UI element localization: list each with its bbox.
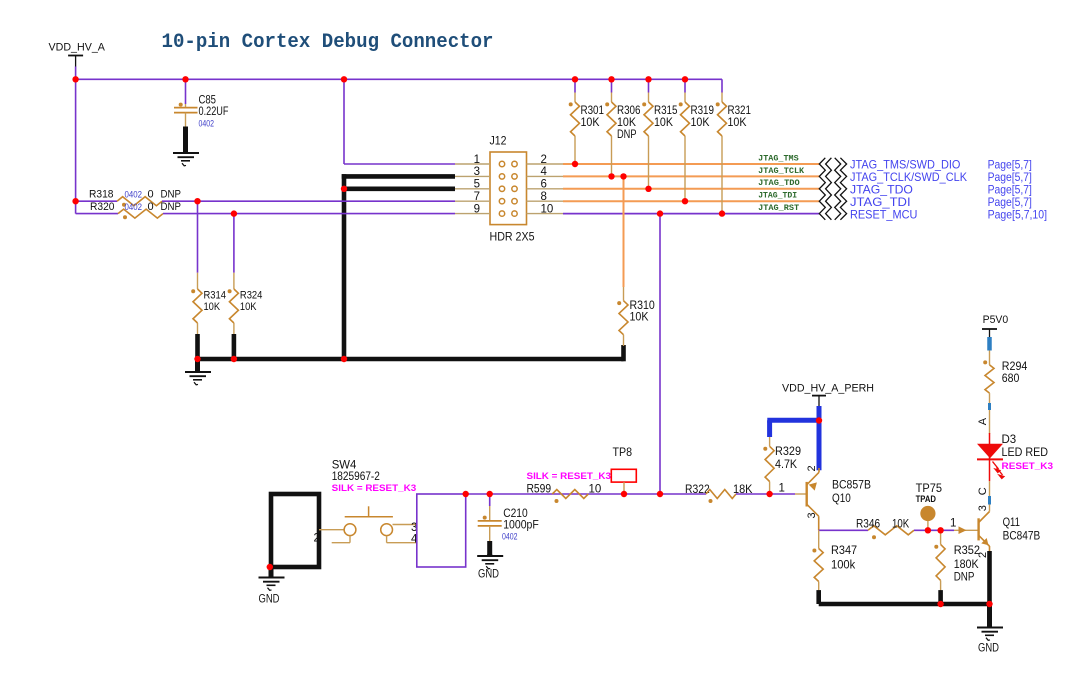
resistor R346 10K (868, 526, 914, 540)
wire ground bus (198, 345, 624, 361)
svg-text:1825967-2: 1825967-2 (332, 471, 380, 483)
wire R318 row right (162, 200, 455, 202)
svg-text:3: 3 (977, 505, 989, 511)
wire C85 branch (185, 79, 187, 104)
svg-text:R322: R322 (685, 484, 710, 496)
ground for C210 (477, 554, 503, 569)
svg-text:10K: 10K (892, 519, 909, 531)
svg-text:1000pF: 1000pF (503, 519, 539, 531)
label R315 10K (654, 105, 678, 129)
label R301 10K (581, 105, 605, 129)
connector J12 HDR 2X5 (490, 152, 527, 225)
svg-text:680: 680 (1002, 373, 1020, 385)
wire VDD_HV_A stub (75, 67, 77, 80)
wire JTAG_TDO row (563, 188, 819, 190)
label R314 10K (204, 290, 227, 313)
wire R329 to VDD_HV_A_PERH blue (767, 420, 819, 437)
svg-text:10K: 10K (240, 301, 257, 313)
svg-text:10K: 10K (630, 311, 649, 323)
svg-text:R347: R347 (831, 545, 857, 557)
svg-text:R321: R321 (728, 105, 752, 117)
label C210 1000pF 0402 (502, 508, 539, 542)
svg-text:JTAG_RST: JTAG_RST (758, 204, 799, 213)
resistor R306 10K DNP (605, 93, 616, 177)
J12 pin numbers 2 4 6 8 10 (541, 154, 554, 216)
wire SW4 gnd loop (271, 494, 319, 567)
ground for bus (185, 359, 211, 385)
wire JTAG_TMS row (563, 163, 819, 165)
ground for bus2 (977, 604, 1003, 641)
svg-text:0.22UF: 0.22UF (199, 106, 229, 118)
transistor Q10 BC857B (807, 468, 819, 530)
wire R346 to Q11 base (914, 529, 954, 531)
resistor R352 180K DNP (934, 544, 945, 591)
switch SW4 (319, 506, 417, 542)
svg-text:10K: 10K (204, 301, 221, 313)
svg-text:2: 2 (806, 465, 818, 471)
label R346 10K (856, 519, 909, 531)
net labels JTAG_TMS JTAG_TCLK JTAG_TDO JTAG_TDI JTAG_RST (758, 154, 804, 213)
svg-text:10-pin Cortex Debug Connector: 10-pin Cortex Debug Connector (162, 31, 494, 54)
wire R318 to R314 (197, 201, 199, 273)
svg-text:SW4: SW4 (332, 459, 357, 471)
svg-text:R306: R306 (617, 105, 641, 117)
value label C85 0.22UF 0402 (199, 94, 229, 128)
power symbol VDD_HV_A_PERH (782, 383, 874, 407)
label R320 0402 0 DNP (90, 201, 181, 213)
wire rail to R315 (648, 79, 650, 92)
off-page connector chevrons (819, 158, 846, 220)
svg-text:RESET_MCU: RESET_MCU (850, 207, 917, 221)
svg-text:R294: R294 (1002, 361, 1028, 373)
svg-text:JTAG_TDI: JTAG_TDI (758, 192, 797, 201)
wire rail to R319 (684, 79, 686, 92)
svg-text:10K: 10K (654, 117, 673, 129)
svg-text:C210: C210 (503, 508, 528, 520)
svg-text:R352: R352 (954, 545, 980, 557)
svg-text:100k: 100k (831, 559, 855, 571)
wire reset to C210 (489, 494, 491, 506)
svg-text:1: 1 (474, 154, 480, 166)
wire rail to R301 (574, 79, 576, 92)
power symbol P5V0 (982, 314, 1008, 340)
resistor R314 10K (191, 273, 202, 335)
svg-text:R301: R301 (581, 105, 605, 117)
svg-text:R320: R320 (90, 201, 115, 213)
wire R314 to gnd bus (195, 334, 200, 359)
wire top VDD rail (76, 78, 722, 80)
label Q11 BC847B (1003, 517, 1041, 543)
svg-text:LED RED: LED RED (1002, 447, 1049, 459)
wire reset line (466, 493, 706, 495)
wire R320 row right (163, 213, 455, 215)
svg-text:SILK = RESET_K3: SILK = RESET_K3 (527, 471, 612, 482)
capacitor C210 1000pF (478, 506, 502, 542)
wire R294 blue segment (988, 403, 991, 410)
resistor R347 100k (812, 549, 823, 592)
svg-text:10K: 10K (581, 117, 600, 129)
J12 right pin stubs (527, 164, 564, 214)
wire JTAG_TDI row (563, 200, 819, 202)
svg-text:5: 5 (474, 179, 480, 191)
wire Q10 collector to R346 (819, 529, 868, 531)
wire node to R352 (940, 530, 942, 544)
svg-text:0402: 0402 (125, 190, 143, 200)
wire rail to R306 (611, 79, 613, 92)
J12 left pin stubs (455, 164, 490, 214)
resistor R599 10 (552, 490, 588, 504)
testpoint TP8 (611, 469, 636, 494)
label R294 680 (1002, 361, 1028, 385)
label R347 100k (831, 545, 857, 571)
resistor R329 4.7K (763, 436, 774, 481)
resistor R294 680 (983, 360, 994, 403)
base arrow Q11 (959, 526, 967, 534)
svg-text:VDD_HV_A: VDD_HV_A (49, 42, 106, 54)
label BC857B Q10 (832, 479, 871, 505)
svg-text:R310: R310 (630, 300, 655, 312)
J12 pin numbers 1 3 5 7 9 (474, 154, 480, 216)
svg-text:Page[5,7,10]: Page[5,7,10] (988, 207, 1047, 221)
wire D3 cathode to Q11 collector (989, 481, 991, 511)
svg-text:Q11: Q11 (1003, 517, 1020, 529)
svg-text:SILK = RESET_K3: SILK = RESET_K3 (332, 483, 417, 494)
wire R352 to gnd bus2 (938, 590, 943, 604)
wire R294 to D3 anode (989, 410, 991, 434)
wire R322 to Q10 base (736, 493, 795, 495)
svg-text:GND: GND (478, 569, 499, 581)
label R321 10K (728, 105, 752, 129)
wire ground bus2 (819, 602, 990, 607)
wire R324 to gnd bus (232, 334, 237, 359)
wire R320 to R324 (233, 214, 235, 273)
svg-text:10K: 10K (728, 117, 747, 129)
ground for C85 (173, 151, 199, 166)
svg-text:DNP: DNP (617, 129, 637, 141)
svg-text:6: 6 (541, 179, 547, 191)
label R324 10K (240, 290, 263, 313)
svg-text:R324: R324 (240, 290, 263, 302)
svg-text:DNP: DNP (954, 571, 975, 583)
label R318 0402 0 DNP (89, 189, 181, 201)
resistor R321 10K (716, 93, 727, 214)
svg-text:JTAG_TDO: JTAG_TDO (758, 179, 800, 188)
svg-text:TP8: TP8 (613, 447, 633, 459)
svg-text:R346: R346 (856, 519, 880, 531)
svg-text:TPAD: TPAD (916, 494, 937, 504)
wire JTAG_RST row (563, 213, 819, 215)
led D3 LED RED (977, 433, 1004, 481)
wire Q11 emitter to gnd bus2 (987, 551, 992, 604)
svg-text:RESET_K3: RESET_K3 (1002, 461, 1054, 472)
wire C210 to gnd (487, 541, 492, 556)
label SW4 1825967-2 SILK = RESET_K3 (332, 459, 417, 494)
label TP75 TPAD (916, 483, 942, 504)
svg-text:1: 1 (779, 483, 785, 495)
svg-text:R599: R599 (527, 483, 552, 495)
wire node to R329 (769, 482, 771, 495)
svg-text:0: 0 (148, 201, 154, 213)
label R322 18K (685, 484, 753, 496)
svg-text:BC857B: BC857B (832, 479, 871, 491)
svg-text:GND: GND (978, 643, 999, 655)
testpoint TP75 (920, 506, 935, 530)
svg-text:R329: R329 (775, 446, 801, 458)
wire SW4 output loop (417, 494, 466, 567)
svg-text:HDR 2X5: HDR 2X5 (490, 230, 535, 244)
resistor R318 (117, 197, 162, 207)
svg-text:0: 0 (148, 189, 154, 201)
svg-text:3: 3 (474, 166, 480, 178)
wire D3 cathode blue segment (988, 496, 991, 505)
svg-text:3: 3 (806, 512, 818, 518)
svg-text:P5V0: P5V0 (983, 314, 1009, 326)
svg-text:7: 7 (474, 191, 480, 203)
svg-text:R315: R315 (654, 105, 678, 117)
svg-text:R314: R314 (204, 290, 227, 302)
resistor R315 10K (642, 93, 653, 189)
svg-text:VDD_HV_A_PERH: VDD_HV_A_PERH (782, 383, 874, 395)
resistor R319 10K (679, 93, 690, 202)
resistor R301 10K (569, 93, 580, 165)
svg-text:J12: J12 (490, 134, 507, 148)
label R319 10K (691, 105, 715, 129)
label D3 LED RED RESET_K3 (1002, 434, 1054, 472)
svg-text:C85: C85 (199, 94, 217, 106)
svg-text:R319: R319 (691, 105, 715, 117)
svg-text:D3: D3 (1002, 434, 1017, 446)
wire gnd to pin3 (342, 174, 455, 179)
resistor R310 10K (617, 287, 628, 346)
svg-text:DNP: DNP (161, 189, 182, 201)
svg-text:180K: 180K (954, 559, 979, 571)
svg-text:10: 10 (589, 483, 602, 495)
svg-text:10K: 10K (617, 117, 636, 129)
label R352 180K DNP (954, 545, 980, 583)
wire gnd vertical bus drop (342, 174, 347, 359)
svg-text:Q10: Q10 (832, 493, 851, 505)
wire left VDD vertical (75, 79, 77, 213)
power symbol VDD_HV_A (49, 42, 106, 67)
svg-text:DNP: DNP (161, 201, 182, 213)
wire Q10 collector to R347 (818, 530, 820, 548)
label R310 10K (630, 300, 655, 324)
svg-text:4.7K: 4.7K (775, 459, 797, 471)
wire R320 row left (76, 213, 118, 215)
svg-text:10: 10 (541, 203, 554, 215)
label R306 10K DNP (617, 105, 641, 141)
svg-text:9: 9 (474, 203, 480, 215)
transistor Q11 BC847B (979, 512, 990, 552)
wire P5V0 blue segment (987, 337, 992, 351)
label R329 4.7K (775, 446, 801, 471)
svg-text:10K: 10K (691, 117, 710, 129)
wire JTAG_RST to reset line (659, 214, 661, 494)
wire C85 to ground (185, 113, 187, 152)
svg-text:0402: 0402 (199, 118, 215, 128)
resistor R322 18K (706, 490, 736, 504)
svg-text:2: 2 (541, 154, 547, 166)
wire rail to R321 (721, 79, 723, 92)
svg-text:GND: GND (259, 594, 280, 606)
wire JTAG_TCLK row (563, 175, 819, 177)
svg-text:4: 4 (541, 166, 548, 178)
svg-text:JTAG_TMS: JTAG_TMS (758, 154, 799, 163)
wire R347 to gnd bus2 (816, 590, 821, 604)
wire TCLK to R310 (623, 176, 625, 287)
svg-text:JTAG_TCLK: JTAG_TCLK (758, 167, 804, 176)
svg-text:0402: 0402 (125, 202, 143, 212)
svg-text:C: C (977, 487, 989, 495)
resistor R324 10K (228, 273, 239, 335)
label R599 and 10 (527, 483, 602, 495)
wire pin1 branch (344, 79, 455, 164)
wire R318 row left (76, 200, 117, 202)
svg-text:2: 2 (314, 533, 320, 545)
svg-text:0402: 0402 (502, 531, 518, 541)
capacitor C85 (174, 103, 198, 113)
svg-text:1: 1 (950, 517, 956, 529)
resistor R320 (118, 209, 163, 219)
svg-text:R318: R318 (89, 189, 114, 201)
ground for SW4 (259, 567, 285, 591)
svg-text:A: A (977, 417, 989, 425)
wire P5V0 to R294 (989, 351, 991, 365)
wire VDD_HV_A_PERH to Q10 emitter blue (817, 406, 822, 470)
svg-text:8: 8 (541, 191, 547, 203)
svg-text:BC847B: BC847B (1003, 531, 1041, 543)
wire gnd to pin5 (344, 187, 455, 192)
